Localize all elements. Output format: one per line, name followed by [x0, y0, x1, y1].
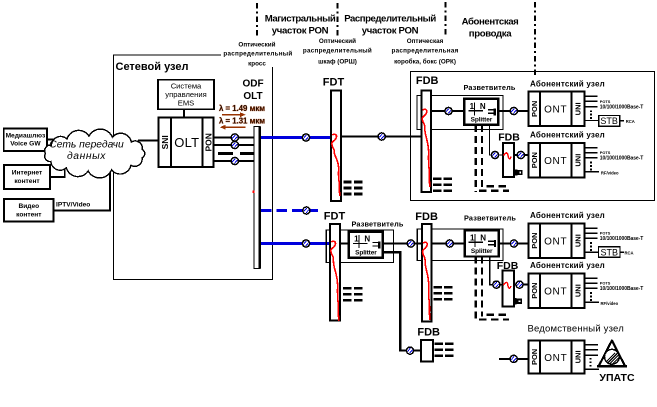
connector FDT-1 out	[378, 133, 385, 140]
wire: FDB-2a to subscriber node 4	[514, 284, 529, 286]
subscriber node 2 RF line	[584, 171, 598, 173]
svg-text:10/100/1000Base-T: 10/100/1000Base-T	[600, 156, 643, 162]
svg-text:Сеть передачи: Сеть передачи	[49, 140, 124, 151]
svg-text:Оптический: Оптический	[319, 37, 356, 45]
optical splitter 1:N (top FDB)	[464, 99, 498, 125]
svg-text:IPTV/Video: IPTV/Video	[56, 202, 90, 209]
connector on feeder 2	[302, 240, 309, 247]
svg-text:PON: PON	[530, 101, 539, 117]
svg-text:UNI: UNI	[574, 284, 583, 297]
svg-text:1: 1	[470, 234, 475, 243]
svg-text:10/100/1000Base-T: 10/100/1000Base-T	[600, 286, 643, 292]
OLT box with SNI / PON interfaces	[158, 118, 213, 167]
svg-text:1: 1	[354, 235, 359, 244]
STB box (node 3)	[599, 247, 621, 258]
connector FDB-2a to ONT-4	[516, 281, 523, 288]
svg-text:N: N	[364, 235, 370, 244]
wire: splitter drop to FDB-2a	[490, 257, 503, 285]
subscriber node 1 STB line	[584, 119, 598, 121]
connector on OLT port 2	[231, 141, 238, 148]
svg-text:Распределительный: Распределительный	[344, 14, 436, 25]
svg-text:λ = 1.31 мкм: λ = 1.31 мкм	[219, 117, 265, 126]
connector FDB-1 to splitter	[445, 107, 452, 114]
subscriber-node-1 ONT box	[529, 92, 585, 127]
section separator 2 (dash-dot line)	[337, 3, 339, 37]
svg-text:данных: данных	[67, 151, 106, 162]
svg-text:Видео: Видео	[18, 203, 39, 210]
FDB-1 unused ports	[433, 177, 452, 192]
departmental node dots	[590, 358, 592, 367]
svg-text:Абонентский узел: Абонентский узел	[530, 79, 605, 88]
connector on OLT port 1	[231, 134, 238, 141]
svg-text:SNI: SNI	[160, 135, 170, 149]
wire: splitter drop to FDB-1a	[490, 124, 503, 155]
red patch fiber in FDT-1	[332, 134, 340, 196]
subscriber-node-1 UNI output lines	[584, 96, 597, 106]
svg-text:FDB: FDB	[416, 75, 439, 87]
drop cables (dashed) below splitter (lower)	[476, 257, 509, 322]
svg-text:UNI: UNI	[574, 350, 583, 363]
FDT-2 cabinet bar	[330, 224, 340, 320]
svg-text:PON: PON	[530, 233, 539, 249]
svg-text:шкаф (ОРШ): шкаф (ОРШ)	[318, 59, 357, 66]
svg-text:ONT: ONT	[544, 286, 567, 297]
svg-text:ONT: ONT	[544, 156, 567, 167]
arrow left (upstream)	[220, 125, 246, 130]
wire: FDB-2 bar to splitter	[432, 243, 465, 245]
subscriber-node-2 UNI output lines	[584, 148, 597, 158]
wire: OLT PON port 2 to ODF	[214, 144, 254, 146]
FDB-3 box	[421, 340, 433, 362]
svg-text:UNI: UNI	[574, 154, 583, 167]
svg-text:OLT: OLT	[243, 91, 262, 102]
svg-text:FDT: FDT	[324, 211, 346, 223]
svg-text:Ведомственный узел: Ведомственный узел	[528, 323, 624, 334]
optical splitter 1:N (FDT-2)	[349, 232, 383, 258]
svg-text:Splitter: Splitter	[355, 249, 377, 256]
svg-text:участок PON: участок PON	[272, 26, 329, 37]
connector into FDB-2a	[493, 281, 500, 288]
FDB-1 cabinet bar	[422, 90, 432, 192]
FDT-1 cabinet bar	[331, 90, 341, 200]
wire: Интернет контент to cloud	[50, 164, 65, 177]
svg-text:UNI: UNI	[574, 234, 583, 247]
FDB-2 inner rack outline	[417, 229, 503, 261]
wire: splitter to subscriber node 1	[498, 110, 528, 112]
svg-text:коробка, бокс (ОРК): коробка, бокс (ОРК)	[394, 58, 456, 66]
wire: Voice GW to cloud	[47, 139, 56, 141]
wire: STB to RCA (node 3)	[620, 251, 624, 253]
svg-text:Абонентский узел: Абонентский узел	[530, 131, 605, 140]
box: Система управления EMS	[158, 80, 214, 110]
connector splitter out to ONT-3	[510, 240, 517, 247]
subscriber-node-2 ONT box	[529, 143, 585, 178]
wire: STB to RCA	[620, 120, 624, 122]
header: Магистральный участок PON	[265, 14, 336, 37]
subscriber-node-3 more-ports dots	[590, 242, 592, 251]
wire (spare, dashed): OLT PON port 3	[218, 152, 253, 155]
fiber: ODF to FDT-2 (blue)	[261, 242, 330, 245]
drop cables (dashed) below splitter (top)	[476, 125, 509, 192]
subscriber-node-3 ONT box	[529, 223, 585, 258]
svg-text:распределительный: распределительный	[223, 50, 292, 58]
svg-text:RF/video: RF/video	[601, 170, 619, 175]
connector on OLT port 4	[231, 157, 238, 164]
svg-text:ONT: ONT	[544, 353, 567, 364]
svg-text:кросс: кросс	[248, 61, 266, 68]
svg-text:10/100/1000Base-T: 10/100/1000Base-T	[600, 104, 643, 110]
connector into FDB-1a	[491, 151, 498, 158]
connector on planned feeder	[303, 207, 310, 214]
arrow right (downstream)	[222, 112, 246, 117]
red splice dot on ODF	[252, 190, 254, 193]
svg-text:λ = 1.49 мкм: λ = 1.49 мкм	[219, 104, 265, 113]
connector on feeder 1	[302, 134, 309, 141]
FDB-2a box	[503, 271, 514, 307]
ODF distribution frame bar	[254, 127, 260, 269]
svg-text:FDB: FDB	[417, 327, 440, 339]
svg-text:RF/video: RF/video	[601, 301, 619, 306]
svg-text:PON: PON	[530, 152, 539, 168]
svg-text:Магистральный: Магистральный	[265, 14, 336, 25]
svg-text:распределительный: распределительный	[303, 47, 372, 55]
svg-text:10/100/1000Base-T: 10/100/1000Base-T	[600, 236, 643, 242]
section separator 4 (dash-dot line)	[534, 2, 536, 77]
wire: FDB-1 bar to splitter	[431, 110, 464, 112]
svg-text:Абонентский узел: Абонентский узел	[530, 211, 605, 220]
header: Распределительный участок PON	[344, 14, 436, 37]
section separator 3 (dash-dot line)	[445, 2, 447, 37]
svg-text:POTS: POTS	[600, 281, 611, 286]
svg-text:распределительная: распределительная	[391, 48, 458, 55]
svg-text:Абонентский узел: Абонентский узел	[530, 261, 605, 270]
svg-text:PON: PON	[530, 349, 539, 365]
red patch fiber in FDB-2	[423, 242, 430, 320]
connector FDB-2 to splitter	[446, 240, 453, 247]
subscriber node 4 RF line	[584, 301, 598, 303]
svg-text:ONT: ONT	[544, 236, 567, 247]
svg-text:STB: STB	[600, 116, 618, 126]
red patch fiber in FDT-2	[331, 241, 339, 321]
svg-text:1: 1	[470, 102, 475, 111]
svg-text:ONT: ONT	[544, 104, 567, 115]
departmental ONT box	[529, 340, 585, 373]
svg-text:UNI: UNI	[574, 102, 583, 115]
fiber: ODF to FDT-1 (blue)	[261, 136, 331, 139]
wire: FDT-2 splitter branch down to FDB-3	[383, 252, 421, 350]
connector FDT-2 splitter out	[407, 240, 414, 247]
svg-text:УПАТС: УПАТС	[599, 372, 635, 384]
svg-text:PON: PON	[203, 133, 213, 151]
wire: EMS to OLT	[183, 109, 185, 117]
connector splitter out to ONT-1	[510, 107, 517, 114]
subscriber-node-2 more-ports dots	[590, 162, 592, 171]
subscriber-node-1 more-ports dots	[590, 110, 592, 119]
svg-text:POTS: POTS	[600, 231, 611, 236]
svg-text:Разветвитель: Разветвитель	[464, 83, 516, 92]
svg-text:Сетевой узел: Сетевой узел	[116, 61, 189, 73]
svg-text:FDT: FDT	[323, 77, 345, 89]
wire: FDB-1a to subscriber node 2	[514, 154, 529, 156]
section separator 1 (dash-dot line)	[256, 3, 258, 37]
svg-text:ODF: ODF	[242, 79, 263, 90]
fiber (planned, dashed blue)	[261, 209, 322, 212]
sub-header: оптический распределительный шкаф (ОРШ)	[303, 37, 372, 66]
svg-text:OLT: OLT	[174, 135, 199, 150]
subscriber-node-4 more-ports dots	[590, 292, 592, 301]
sub-header: оптическая распределительная коробка, бокс (ОРК)	[391, 38, 458, 66]
FDB-3 unused ports	[435, 343, 454, 358]
optical splitter 1:N (lower FDB)	[465, 231, 499, 257]
svg-text:EMS: EMS	[178, 98, 194, 107]
FDB-2 cabinet bar	[422, 224, 432, 321]
red patch fiber in FDB-1	[422, 109, 430, 187]
FDB-1 group outer box	[411, 72, 655, 201]
PBX symbol (УПАТС triangle)	[596, 341, 646, 373]
svg-text:Разветвитель: Разветвитель	[352, 220, 404, 229]
svg-text:Разветвитель: Разветвитель	[464, 214, 516, 223]
svg-text:Splitter: Splitter	[471, 117, 493, 124]
wire: Видео контент to cloud (IPTV)	[54, 158, 110, 211]
header: Абонентская проводка	[462, 17, 519, 40]
svg-text:Медиашлюз: Медиашлюз	[6, 132, 46, 139]
svg-text:PON: PON	[530, 283, 539, 299]
FDT-2 inner rack outline	[326, 230, 393, 263]
svg-text:Voice GW: Voice GW	[10, 141, 41, 148]
box: Видео контент	[4, 199, 54, 222]
svg-text:контент: контент	[16, 212, 42, 219]
red fiber in FDB-2a	[503, 282, 510, 288]
wire: FDT-1 to FDB-1	[341, 135, 422, 137]
svg-text:N: N	[480, 102, 486, 111]
wire: OLT PON port 1 to ODF	[214, 137, 254, 139]
terminated port on FDB-2a	[514, 298, 522, 304]
svg-text:RCA: RCA	[626, 119, 635, 124]
svg-text:проводка: проводка	[469, 29, 512, 40]
data network cloud (Сеть передачи данных)	[45, 129, 145, 178]
departmental node UNI lines	[584, 345, 598, 370]
subscriber-node-3 UNI output lines	[584, 228, 597, 238]
connector into FDB-3	[406, 347, 413, 354]
connector FDB-1a to ONT-2	[517, 151, 524, 158]
svg-text:RCA: RCA	[625, 250, 634, 255]
svg-text:FDB: FDB	[415, 211, 438, 223]
box: Интернет контент	[4, 165, 50, 189]
svg-text:FDB: FDB	[498, 132, 520, 144]
sub-header: оптический распределительный кросс	[221, 38, 293, 68]
wire: cloud to OLT SNI	[138, 140, 158, 142]
FDT-1 unused ports	[343, 181, 362, 196]
network node box (Сетевой узел)	[114, 55, 273, 280]
subscriber node 3 STB line	[584, 251, 598, 253]
FDB-2 unused ports	[434, 286, 453, 301]
svg-text:Оптическая: Оптическая	[407, 38, 444, 45]
svg-text:Абонентская: Абонентская	[462, 17, 519, 28]
svg-text:Оптический: Оптический	[238, 41, 275, 49]
wire: splitter to subscriber node 3	[499, 243, 529, 245]
FDB-1 inner rack outline	[417, 95, 503, 129]
svg-text:N: N	[480, 234, 486, 243]
wire: FDT-2 bar to splitter	[340, 243, 349, 245]
wire: OLT PON port 4 to ODF	[214, 160, 254, 162]
FDT-2 unused ports	[343, 287, 362, 302]
FDB-1a box	[503, 143, 514, 177]
svg-text:POTS: POTS	[600, 150, 611, 155]
svg-text:Интернет: Интернет	[12, 170, 43, 177]
svg-text:Splitter: Splitter	[471, 248, 493, 255]
red fiber in FDB-1a	[504, 153, 511, 159]
wire: FDT-2 splitter to FDB-2	[383, 242, 422, 244]
wire: into departmental node	[499, 358, 529, 360]
subscriber-node-4 ONT box	[529, 273, 585, 308]
subscriber-node-4 UNI output lines	[584, 278, 597, 288]
svg-text:участок PON: участок PON	[362, 26, 419, 37]
svg-text:POTS: POTS	[600, 99, 611, 104]
svg-text:контент: контент	[14, 178, 40, 185]
svg-text:STB: STB	[600, 247, 618, 257]
STB box (node 1)	[599, 116, 620, 127]
box: Медиашлюз Voice GW	[4, 128, 47, 151]
connector into departmental ONT	[510, 355, 517, 362]
terminated port on FDB-1a	[515, 169, 523, 175]
